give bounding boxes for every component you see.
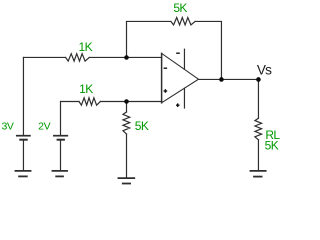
wire left input branch horizontal xyxy=(23,56,65,58)
wire R3 to ground xyxy=(126,134,128,177)
node junction dot A (inverting input / feedback tap) xyxy=(124,55,129,60)
svg-text:5K: 5K xyxy=(135,119,149,133)
ground G4 xyxy=(250,170,265,172)
wire RL branch vertical xyxy=(257,79,259,118)
svg-text:3V: 3V xyxy=(1,121,13,133)
op-amp negative supply minus mark xyxy=(176,52,180,54)
battery V2 2V plates xyxy=(54,135,67,137)
wire from R1 to op-amp inverting input xyxy=(89,56,161,58)
wire from node B down to R3 xyxy=(126,102,128,113)
node junction dot Vs terminal xyxy=(256,77,261,82)
wire top feedback right segment down to output node xyxy=(195,21,221,79)
resistor RL 5K vertical zigzag xyxy=(255,118,262,140)
resistor R-feedback 5K zigzag xyxy=(171,18,195,25)
wire from R2 to op-amp noninverting input xyxy=(100,101,161,103)
op-amp positive supply plus mark xyxy=(176,104,180,106)
op-amp positive power stub xyxy=(183,49,185,69)
ground G1 xyxy=(15,170,30,172)
node junction dot output/feedback xyxy=(219,77,224,82)
wire 2V battery to ground xyxy=(60,141,62,171)
op-amp noninverting input plus mark xyxy=(164,90,168,92)
resistor R1 1K upper zigzag xyxy=(66,54,90,61)
ground G3 xyxy=(118,177,134,179)
wire top feedback left segment xyxy=(127,21,171,57)
wire 3V battery to ground xyxy=(22,141,24,171)
svg-text:Vs: Vs xyxy=(257,62,272,77)
resistor R2 1K lower zigzag xyxy=(79,98,100,105)
resistor R3 5K vertical zigzag xyxy=(123,112,130,134)
svg-text:5K: 5K xyxy=(265,139,279,153)
op-amp negative power stub xyxy=(183,88,185,108)
wire output to Vs xyxy=(199,78,259,80)
svg-text:1K: 1K xyxy=(79,40,93,54)
ground G2 xyxy=(52,170,67,172)
svg-text:2V: 2V xyxy=(38,121,50,133)
wire 2V branch corner xyxy=(61,102,80,136)
svg-text:1K: 1K xyxy=(79,82,93,96)
battery V1 3V plates xyxy=(17,135,30,137)
wire RL to ground xyxy=(257,140,259,170)
node junction dot B (noninverting input / R3 tap) xyxy=(124,99,129,104)
op-amp inverting input minus mark xyxy=(164,67,168,69)
wire 3V branch vertical xyxy=(22,57,24,135)
op-amp U1 triangle xyxy=(161,53,163,102)
svg-text:5K: 5K xyxy=(173,1,187,15)
